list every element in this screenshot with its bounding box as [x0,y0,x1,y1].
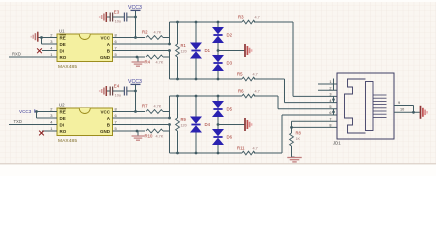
ground (chassis) left of decoupling caps [107,16,111,18]
wire pin GND [122,130,137,132]
svg-text:E4: E4 [114,84,120,89]
svg-text:4.7K: 4.7K [154,104,162,108]
svg-text:VCC3: VCC3 [128,5,142,11]
TVS diode D5 [212,101,224,117]
svg-text:U1: U1 [59,29,65,34]
wire net A1 to pin 3 [254,21,293,23]
capacitor E3 [109,13,111,22]
svg-text:R7: R7 [142,103,148,108]
ground (chassis earth) at shield [420,106,422,119]
wire block bottom rail [170,78,243,80]
TVS diode D2 [212,27,224,43]
svg-text:10u: 10u [115,20,121,24]
wire cap to cap [113,90,125,92]
wire D5/D6 column [217,96,219,101]
svg-text:3: 3 [329,93,331,97]
power VCC3 symbol [131,9,141,11]
node VCC junction [134,90,137,93]
wire pins 7-8 tie [292,120,338,122]
TVS diode D3 [212,55,224,71]
svg-text:RE: RE [60,35,66,40]
wire block left edge (A up) [169,96,171,118]
svg-text:VCC: VCC [100,35,110,40]
TVS diode D6 [212,129,224,145]
svg-text:DI: DI [60,48,65,53]
wire net B2 to pin 6 [254,152,282,154]
svg-text:10: 10 [400,108,404,112]
node TXD wire [9,124,48,126]
wire pins 3-4 tie [333,96,335,102]
TVS diode D4 [190,117,202,133]
power VCC3 symbol [131,83,141,85]
connector JD1 contacts [373,94,387,96]
wire pin A to block [122,43,170,45]
ground under R8 [292,156,295,158]
svg-text:RO: RO [60,129,67,134]
svg-text:MAX485: MAX485 [58,64,77,70]
svg-text:TXD: TXD [14,119,22,124]
svg-text:4.7: 4.7 [253,147,258,151]
svg-text:8: 8 [329,124,331,128]
ground (chassis earth) [244,118,246,131]
svg-text:D1: D1 [205,48,211,53]
wire VCC node down to pin 8 [135,17,137,38]
U1 left pin stubs [48,37,58,39]
ground at GND pin [137,57,139,62]
connector JD1 outer body [337,73,394,139]
svg-text:D4: D4 [205,122,211,127]
svg-text:1K: 1K [296,137,301,141]
svg-text:E3: E3 [114,10,120,15]
op-amp transceiver U2 body [57,108,113,136]
wire net B1 to pin 4 [254,78,285,80]
wire block top rail [170,95,243,97]
svg-text:10u: 10u [115,94,121,98]
node mid junction [217,49,220,52]
wire block left edge (B down) [169,125,171,154]
svg-text:D2: D2 [227,33,233,38]
node RXD wire [9,56,48,58]
svg-text:R11: R11 [237,146,245,151]
resistor R9 termination [177,96,179,118]
svg-text:R3: R3 [238,15,244,20]
U1 notch [79,34,90,40]
wire block left edge (A up) [169,22,171,44]
svg-text:VCC3: VCC3 [19,109,32,114]
svg-text:120: 120 [181,124,187,128]
svg-text:RE: RE [60,109,66,114]
U2 notch [79,108,90,114]
svg-text:R10: R10 [145,134,153,139]
wire pin GND [122,56,137,58]
svg-text:4: 4 [329,99,331,103]
wire D1 column [195,22,197,43]
svg-text:4.7: 4.7 [253,73,258,77]
resistor R1 termination [177,22,179,44]
resistor R5 series B [242,77,255,81]
wire pins 5-6 tie [333,109,335,115]
resistor R10 pull-down [137,130,145,132]
ground (chassis earth) [244,44,246,57]
svg-text:120: 120 [181,50,187,54]
wire D4 column [195,96,197,117]
resistor R11 series B [242,151,255,155]
svg-text:D3: D3 [227,61,233,66]
wire block top rail [170,21,243,23]
wire to chassis earth [218,124,245,126]
svg-text:4.7K: 4.7K [154,30,162,34]
op-amp transceiver U1 body [57,34,113,62]
wire cap to cap [113,16,125,18]
wire pins 1-2 tie [333,79,335,91]
wire RE/DE tie bracket [42,37,48,39]
wire pin 2 stub [318,89,337,91]
svg-text:4.7K: 4.7K [156,135,164,139]
wire cap to vcc node [127,90,136,92]
no-connect X on RO [42,130,48,132]
wire pin 9 stub [394,105,414,107]
svg-text:2: 2 [329,86,331,90]
svg-text:R5: R5 [237,72,243,77]
wire pin B to block [122,124,170,126]
no-connect X on DI [42,50,48,52]
svg-text:MAX485: MAX485 [58,138,77,144]
svg-text:RXD: RXD [12,52,21,57]
svg-text:6: 6 [329,111,331,115]
svg-text:D5: D5 [227,107,233,112]
capacitor C3 [123,13,125,22]
resistor R4 pull-down [137,56,145,58]
svg-text:JD1: JD1 [333,141,341,146]
resistor R8 to ground [291,127,293,133]
ground at GND pin [137,131,139,136]
svg-text:R4: R4 [145,60,151,65]
wire block left edge (B down) [169,51,171,80]
svg-text:GND: GND [100,129,111,134]
svg-text:DI: DI [60,122,65,127]
svg-text:VCC3: VCC3 [128,79,142,85]
svg-text:VCC: VCC [100,109,110,114]
TVS diode D1 [190,43,202,59]
svg-text:R6: R6 [238,89,244,94]
wire cap to vcc node [127,16,136,18]
ground (chassis) left of decoupling caps [107,90,111,92]
resistor R3 series A [242,20,255,24]
svg-text:5: 5 [329,105,331,109]
svg-text:DE: DE [60,42,66,47]
svg-text:R1: R1 [181,43,187,48]
svg-text:4.7: 4.7 [255,90,260,94]
svg-text:DE: DE [60,116,66,121]
wire D2/D3 column [217,22,219,27]
svg-text:4.7: 4.7 [255,16,260,20]
wire pin 1 stub [318,83,337,85]
U2 left pin stubs [48,111,58,113]
svg-text:GND: GND [100,55,111,60]
wire VCC node down to pin 8 [135,91,137,112]
svg-text:1: 1 [329,80,331,84]
svg-text:4.7K: 4.7K [156,61,164,65]
wire RE/DE tie bracket [37,111,48,113]
svg-text:R2: R2 [142,29,148,34]
wire to chassis earth [218,50,245,52]
resistor R2 pull-up [122,37,145,39]
capacitor E4 [109,87,111,96]
node mid junction [217,123,220,126]
svg-text:7: 7 [329,117,331,121]
wire net A2 to pin 5 [254,95,278,97]
node VCC junction [134,16,137,19]
svg-text:D6: D6 [227,135,233,140]
resistor R7 pull-up [122,111,145,113]
wire pin A to block [122,117,170,119]
ground (signal) at RE/DE [38,37,41,39]
wire pin B to block [122,50,170,52]
resistor R6 series A [242,94,255,98]
svg-text:R9: R9 [181,117,187,122]
svg-text:9: 9 [398,101,400,105]
connector JD1 contact carrier [366,82,374,131]
wire pin 10 to earth [394,111,420,113]
capacitor C4 [123,87,125,96]
svg-text:R8: R8 [296,131,302,136]
svg-text:RO: RO [60,55,67,60]
svg-text:U2: U2 [59,103,65,108]
connector JD1 jack profile [345,79,366,133]
wire block bottom rail [170,152,243,154]
